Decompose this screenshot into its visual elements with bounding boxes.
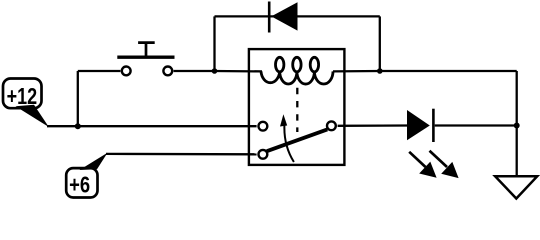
wire ground drop upper (vertical) <box>516 71 518 126</box>
wire right riser from coil node to diode rail <box>379 16 381 71</box>
wire left riser from coil node to diode rail <box>213 16 215 71</box>
relay coil L1 <box>261 57 333 84</box>
wire coil left lead <box>215 70 263 73</box>
diode D1 flyback <box>269 2 297 33</box>
wire coil right lead to right node <box>333 70 380 73</box>
LED light arrow 2 <box>430 151 459 178</box>
junction dot +12/pushbutton <box>75 123 81 129</box>
label +12 <box>3 79 49 128</box>
relay contact pin: +12 side (top-left) <box>259 122 268 131</box>
wire +6 feed row <box>106 153 257 156</box>
arrow actuation direction <box>280 114 294 162</box>
wire riser +12 to pushbutton <box>77 71 79 126</box>
wire top rail (diode rail) <box>215 15 380 17</box>
svg-text:+6: +6 <box>69 172 90 198</box>
wire ground drop lower <box>516 126 518 177</box>
LED light arrow 1 <box>409 152 436 178</box>
wire pushbutton right lead to coil node <box>174 70 215 72</box>
dashed actuation link <box>296 88 298 132</box>
relay contact pin: +6 side (bottom-left) <box>259 150 268 159</box>
pushbutton S1 <box>117 43 174 76</box>
wire LED cathode to ground node <box>435 124 517 126</box>
LED D2 <box>407 109 433 142</box>
junction dot coil left node <box>212 68 218 74</box>
relay K1 box <box>249 49 345 165</box>
relay armature (switch blade) <box>267 129 328 151</box>
wire coil node to ground drop (horizontal) <box>380 70 517 72</box>
junction dot ground node <box>514 123 520 129</box>
ground symbol <box>495 176 537 198</box>
wire pushbutton left lead <box>78 70 121 72</box>
junction dot coil right node <box>377 68 383 74</box>
label +6 <box>66 153 107 198</box>
wire +12 feed row <box>47 125 257 127</box>
wire common contact to LED <box>338 124 408 127</box>
relay contact pin: common (right) <box>327 121 336 130</box>
